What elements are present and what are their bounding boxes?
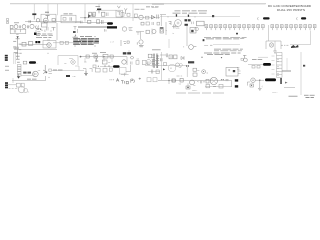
transformer T2 [97, 9, 101, 14]
component cluster K [141, 22, 160, 25]
annotation glyphs [110, 78, 115, 81]
capacitor C6 [157, 15, 158, 19]
marks x137 [137, 58, 140, 60]
wire lower rail [75, 22, 107, 24]
dark dot M3 [203, 39, 205, 41]
comp T6 [241, 55, 247, 61]
svg-text:vwm c: vwm c [272, 92, 278, 94]
resistor R23 [252, 65, 255, 68]
svg-text:DUAL 15V PRINTS: DUAL 15V PRINTS [277, 8, 305, 12]
marks x180 [179, 67, 182, 69]
drops from rail [85, 58, 112, 62]
wire bus down [165, 22, 167, 35]
relay K2 [175, 20, 182, 27]
box U1 [41, 14, 56, 23]
labels above rail [92, 51, 106, 54]
text band 1 [204, 37, 247, 39]
capacitor C12 [84, 62, 87, 64]
label u13 [108, 62, 111, 64]
resistor R18 [49, 69, 52, 71]
notes block A [36, 34, 53, 37]
vline x13 low [12, 78, 14, 83]
ground below box [273, 48, 277, 53]
notes block B [73, 39, 99, 45]
svg-text:vwm c: vwm c [192, 90, 197, 92]
wire pin to box [269, 25, 275, 48]
diode D7 [181, 56, 184, 60]
inductor L7 dark [263, 63, 271, 66]
smudge faint [272, 92, 278, 94]
label stack A [16, 53, 22, 62]
test point V2 [124, 8, 127, 14]
label right small [252, 58, 262, 60]
fan B2 [210, 77, 217, 84]
svg-text:iv: iv [166, 30, 167, 32]
marks in box [64, 63, 67, 65]
wire u19 [255, 80, 264, 81]
main rail y56 [80, 56, 127, 58]
box U3 [61, 14, 76, 23]
resistor R12 [97, 20, 100, 24]
corner wire [126, 65, 131, 72]
capacitor C13 [95, 58, 98, 62]
component U9 [160, 28, 163, 34]
inductor L2 dark [258, 17, 270, 20]
transistor Q1 [88, 14, 91, 18]
dark mark right [303, 65, 305, 67]
capacitor C11 plus [71, 60, 75, 64]
label T1 [45, 11, 49, 13]
vline x287 [286, 58, 288, 71]
capacitor C3 [70, 17, 71, 21]
wire long y44 [213, 44, 240, 46]
connector CN1 dark [5, 55, 8, 61]
capacitor C1 [46, 16, 50, 19]
label NEW dark [188, 61, 194, 63]
box U16 [193, 73, 197, 76]
relay K1 [169, 21, 172, 25]
capacitor C17 [201, 80, 206, 83]
label top right [146, 6, 159, 8]
text band 1 tail [240, 38, 245, 40]
wire out rail [158, 80, 232, 82]
lower comp row [122, 60, 157, 65]
capacitor C7 [81, 21, 83, 23]
transformer T1 [32, 13, 36, 19]
marks x198 [197, 81, 199, 83]
dark arrow [163, 68, 165, 70]
label MC dark [185, 19, 191, 21]
junction x231 [231, 81, 233, 87]
vline x169 [168, 39, 170, 48]
fan box outline [266, 41, 281, 49]
svg-text:c c f: c c f [110, 42, 114, 44]
resistor R26 [179, 78, 184, 85]
dots cluster [186, 65, 189, 66]
wire bottom left [12, 76, 46, 81]
wire to Q1 [80, 11, 96, 22]
fan symbol B1 [269, 43, 273, 47]
dark line under notes [78, 26, 117, 28]
terminal boxes [147, 78, 157, 82]
ground G2 [84, 71, 88, 76]
text band 3 [204, 53, 241, 55]
dark dot M2 [236, 33, 238, 35]
wire y74 [121, 73, 129, 76]
svg-text:((: (( [44, 29, 46, 32]
resistor R10 [146, 16, 149, 19]
box U14 [119, 67, 126, 74]
snubber pair [169, 55, 177, 59]
title line 1 [268, 4, 312, 8]
mark small [129, 51, 130, 52]
svg-text:M: M [170, 68, 172, 70]
terminal pair [14, 47, 18, 49]
label bottom [289, 95, 298, 97]
cluster regulators [183, 45, 196, 50]
wire to right [53, 42, 80, 44]
dash wire [281, 44, 288, 46]
label T2 [96, 6, 101, 8]
connector CN4 dark [5, 82, 8, 88]
wire drop topleft [56, 23, 58, 40]
pot RV2 [202, 70, 209, 75]
bias network [121, 40, 129, 46]
sense resistor [164, 63, 167, 66]
small text mid [204, 45, 212, 47]
vline x157 [156, 55, 158, 68]
dark square D6 [34, 33, 37, 36]
transistor Q6 [190, 80, 195, 85]
resistor R17 [23, 61, 27, 64]
resistor R15 [60, 41, 63, 44]
vline left secondary [161, 52, 163, 80]
box PSU [226, 67, 241, 76]
diode pair D4 [176, 63, 183, 67]
box U20 [250, 84, 253, 87]
svg-text:vwm: vwm [240, 38, 245, 40]
box U17 [186, 83, 190, 89]
resistor R24 [257, 65, 260, 68]
dark mark under MC [185, 22, 194, 26]
marks bottom [73, 76, 77, 78]
label U10 [176, 28, 180, 30]
box U5 [197, 21, 205, 26]
node dots rail3 [168, 14, 196, 17]
capacitor C10 [47, 27, 49, 30]
wire drop x187 [186, 26, 188, 46]
resistor R29 [52, 28, 56, 31]
marks q4 [38, 70, 41, 72]
titleblock text [304, 95, 315, 97]
wire input [25, 21, 80, 23]
capacitor C16 [160, 53, 168, 56]
input terminal marks [7, 19, 9, 24]
box right edge [290, 31, 311, 45]
svg-text:vwm: vwm [69, 58, 73, 60]
wire q4 [21, 75, 33, 77]
inductor L8 dark [265, 78, 276, 81]
mark x167 [167, 56, 169, 58]
wire mid rail [96, 9, 116, 11]
vline x301 tall [300, 52, 302, 95]
varistor RV1 dark [291, 45, 298, 48]
connector strip CN2 [17, 65, 21, 77]
diode D2 [152, 16, 155, 19]
bead FB1 dark [235, 79, 238, 81]
resistor R8 [127, 13, 130, 16]
diode D5 [73, 27, 78, 38]
resistor R6 [102, 12, 105, 16]
resistor R9 [134, 14, 137, 17]
resistor R7 [121, 13, 124, 17]
capacitor C2 [29, 20, 30, 22]
wire cn4 [8, 85, 17, 89]
box U4 [116, 10, 122, 17]
mark under q5 [49, 73, 52, 75]
wire drop [132, 11, 134, 22]
box U13 [102, 60, 107, 64]
strip pins [278, 59, 279, 76]
inductor L6 dark [113, 65, 120, 68]
svg-text:vw wr: vw wr [152, 6, 158, 9]
wire long right [52, 70, 84, 72]
wire rail2 [96, 17, 160, 19]
marks low [177, 75, 183, 77]
resistor R2 [52, 19, 55, 22]
op-amp U19 [251, 78, 255, 82]
comp row2 [83, 68, 112, 72]
marks q6 [193, 85, 196, 87]
ground G3 [258, 87, 262, 91]
box heatsink [58, 56, 78, 65]
dots after fan [221, 79, 224, 80]
vline x187 low [186, 67, 188, 77]
resistor R27 [16, 83, 20, 87]
capacitor C18 [226, 79, 229, 80]
label AP3CB [27, 78, 37, 80]
marks ccf [110, 42, 114, 44]
cluster y85 [206, 84, 223, 88]
bead FB2 dark [235, 85, 238, 87]
resistor R4 [89, 12, 92, 16]
dark vbar x281 [280, 78, 282, 84]
box U12 [103, 54, 108, 58]
test point V1 [117, 6, 120, 8]
box U11 [190, 28, 196, 34]
wire y71 right [148, 71, 160, 73]
mark single [48, 53, 49, 54]
wire rail3 [160, 16, 240, 18]
bracket right [75, 66, 79, 70]
label small [152, 6, 158, 9]
svg-text:(): () [207, 72, 209, 74]
capacitor C4 [93, 14, 95, 18]
transistor Q5 [43, 65, 47, 74]
wire y86 [205, 86, 232, 88]
resistor R22 [156, 70, 159, 74]
label cluster [135, 8, 145, 10]
inductor L1 dark [107, 22, 113, 25]
wire row mid left [20, 43, 48, 45]
capacitor C5 [107, 13, 109, 17]
wire y66 [100, 66, 113, 68]
marks left edge [8, 21, 10, 24]
capacitor C14 [161, 58, 163, 61]
vertical feed [160, 15, 166, 26]
capacitor C15 [151, 70, 152, 74]
label MAIN dark [123, 52, 131, 54]
resistor R14 [28, 42, 32, 46]
wire y71 dark [282, 70, 291, 72]
resistor R25 dark [172, 79, 175, 82]
oscillator cluster [42, 22, 48, 27]
wire stub left [152, 3, 164, 5]
regulator VR1 [137, 40, 143, 47]
resistor R16 [65, 41, 68, 44]
box U18 [206, 79, 209, 83]
node A [84, 17, 85, 18]
arrow mark [285, 82, 288, 84]
long wire y65 [145, 65, 186, 67]
connector strip CN3 [272, 52, 283, 77]
resistor R11 [88, 20, 91, 23]
diamond D3 [130, 56, 134, 59]
capacitor C9 [172, 25, 178, 29]
vline bus left [14, 52, 15, 64]
transformer T5 left [148, 54, 152, 58]
pin labels column [13, 41, 21, 52]
vline x127 [126, 57, 128, 65]
svg-text:U?i: U?i [176, 28, 180, 30]
note footer dash [176, 92, 224, 94]
label under [192, 90, 197, 92]
vertical feeds from border [34, 4, 133, 15]
inductor L4 dark [35, 41, 40, 43]
wire corner F2 [136, 32, 144, 40]
rail lower [14, 49, 57, 51]
ground G4 [17, 74, 20, 79]
lower cluster B [146, 29, 175, 36]
op-amp U2 [44, 18, 49, 23]
capacitor C19 [36, 28, 40, 29]
motor circle M [168, 64, 176, 72]
value labels row [14, 22, 19, 24]
transistor Q2 [139, 15, 143, 19]
comp above [93, 65, 99, 68]
notes text block upper [173, 11, 208, 13]
junction x169 [168, 78, 169, 84]
mark x49 [49, 77, 50, 78]
corner dots notes [75, 36, 96, 46]
dots y66 [104, 65, 109, 66]
dark tick [160, 27, 163, 29]
notes header [80, 36, 92, 38]
label A0B03 [23, 72, 31, 74]
border top right [240, 3, 266, 5]
dash row [258, 56, 268, 58]
tick marks [36, 29, 52, 32]
label mid [166, 30, 167, 32]
title line 2 [277, 8, 305, 12]
timer box [10, 29, 26, 34]
filter cluster F2 [105, 27, 133, 32]
resistor R5 [93, 12, 96, 16]
marks beside D6 [37, 32, 40, 33]
mark after L5 [37, 63, 38, 65]
dots band3 [201, 57, 222, 59]
box U7 [43, 40, 56, 48]
diode D1 [36, 19, 39, 22]
label AP3CA [53, 69, 63, 71]
arrow input left [16, 36, 20, 59]
box U15 [193, 68, 200, 72]
relay contact row [10, 24, 41, 29]
node dots rail [95, 56, 104, 57]
transistor Q3 [195, 27, 199, 31]
resistor R3 [63, 18, 66, 21]
resistor R20 [94, 55, 98, 58]
wire y87 right [284, 87, 295, 89]
marks x262 [261, 86, 263, 88]
inductor L3 dark [297, 17, 307, 20]
dark mark M1 [212, 15, 214, 17]
text band 2 [214, 49, 243, 51]
resistor R21 [110, 55, 113, 58]
capacitor C8 [102, 20, 104, 24]
label stack B [5, 66, 9, 70]
filter blob FL1 [18, 86, 29, 92]
bracket q [247, 82, 250, 86]
vline x259 [259, 81, 261, 87]
resistor R13 [22, 42, 26, 46]
svg-text:vwm: vwm [204, 45, 208, 47]
transformer T5 core [152, 54, 159, 69]
dark blob small [66, 75, 70, 77]
rectifier circle [146, 60, 151, 65]
wire y64 right [248, 64, 263, 66]
resistor R28 [21, 83, 24, 87]
resistor R19 [86, 55, 89, 58]
border top line [10, 3, 265, 5]
transistor Q4 [33, 71, 39, 77]
terminal dot [80, 56, 82, 58]
inductor L5 dark [29, 61, 36, 64]
label dash lower [152, 49, 161, 51]
connector J1 pin row [205, 25, 316, 31]
op-amp U8 [47, 43, 51, 47]
